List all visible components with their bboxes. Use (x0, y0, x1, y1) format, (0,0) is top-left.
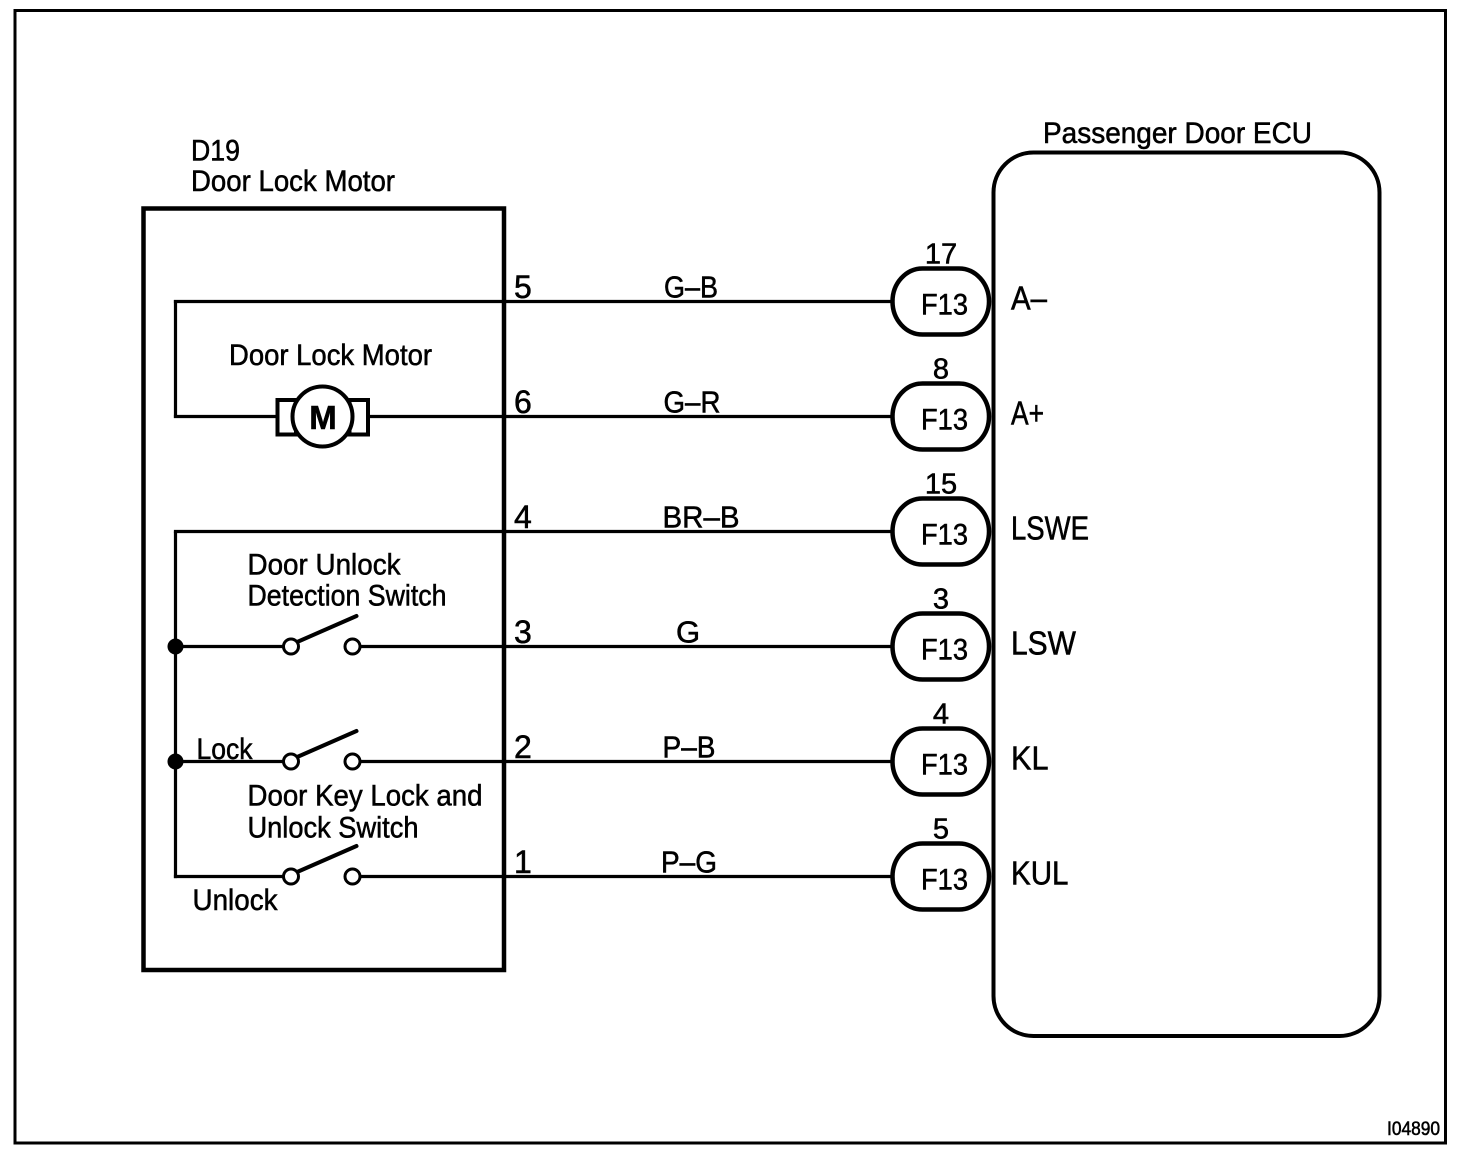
svg-text:Lock: Lock (197, 733, 254, 766)
svg-text:8: 8 (933, 354, 949, 386)
label Door Key Lock and Unlock Switch (248, 780, 483, 845)
connector F13 terminal 5 (893, 814, 990, 910)
svg-text:5: 5 (514, 269, 532, 305)
switch S2 Lock contact (284, 731, 361, 769)
switch S3 Unlock contact (284, 846, 361, 884)
svg-text:F13: F13 (921, 749, 968, 782)
svg-text:LSWE: LSWE (1011, 510, 1089, 547)
svg-text:A–: A– (1011, 280, 1048, 317)
svg-text:I04890: I04890 (1387, 1119, 1440, 1140)
svg-text:G–R: G–R (664, 385, 721, 420)
junction node at detection switch (168, 639, 184, 655)
svg-text:Unlock Switch: Unlock Switch (248, 812, 419, 845)
switch S1 Door Unlock Detection Switch (284, 616, 361, 654)
svg-text:D19: D19 (191, 135, 240, 168)
svg-text:P–G: P–G (661, 845, 717, 880)
wire pin2 P-B (174, 760, 893, 763)
svg-text:A+: A+ (1011, 395, 1044, 432)
wire pin6 G-R (174, 415, 893, 418)
connector F13 terminal 15 (893, 469, 990, 565)
svg-text:P–B: P–B (663, 730, 716, 765)
label Door Unlock Detection Switch (248, 549, 447, 613)
svg-text:Unlock: Unlock (193, 884, 279, 917)
svg-text:15: 15 (925, 469, 957, 501)
svg-text:6: 6 (514, 384, 532, 420)
svg-text:KL: KL (1011, 740, 1049, 777)
svg-text:4: 4 (933, 699, 949, 731)
svg-text:1: 1 (514, 844, 532, 880)
svg-text:F13: F13 (921, 404, 968, 437)
svg-text:17: 17 (925, 239, 957, 271)
door lock motor sub-box left edge (174, 300, 177, 418)
connector F13 terminal 8 (893, 354, 990, 450)
svg-text:BR–B: BR–B (663, 500, 740, 535)
svg-text:G–B: G–B (664, 270, 718, 305)
wire pin1 P-G (174, 875, 893, 878)
ECU U1 Passenger Door ECU (994, 153, 1380, 1037)
svg-text:Detection Switch: Detection Switch (248, 580, 447, 613)
wire pin5 G-B (174, 300, 893, 303)
svg-text:LSW: LSW (1011, 625, 1077, 662)
svg-text:G: G (676, 615, 700, 650)
svg-text:Door Key Lock and: Door Key Lock and (248, 780, 483, 813)
svg-text:M: M (309, 399, 337, 436)
svg-text:5: 5 (933, 814, 949, 846)
svg-text:3: 3 (933, 584, 949, 616)
connector F13 terminal 4 (893, 699, 990, 795)
junction node at lock switch (168, 754, 184, 770)
connector F13 terminal 17 (893, 239, 990, 335)
svg-text:Door Unlock: Door Unlock (248, 549, 402, 582)
svg-text:KUL: KUL (1011, 855, 1069, 892)
svg-text:Door Lock Motor: Door Lock Motor (229, 339, 432, 372)
wire pin3 G (174, 645, 893, 648)
svg-text:F13: F13 (921, 634, 968, 667)
svg-text:F13: F13 (921, 519, 968, 552)
motor M1 Door Lock Motor (278, 387, 369, 447)
connector D19 Door Lock Motor box (144, 209, 505, 971)
svg-text:F13: F13 (921, 289, 968, 322)
svg-text:4: 4 (514, 499, 532, 535)
svg-text:Passenger Door ECU: Passenger Door ECU (1043, 117, 1312, 150)
svg-text:Door Lock Motor: Door Lock Motor (191, 165, 395, 198)
connector F13 terminal 3 (893, 584, 990, 680)
wire pin4 BR-B (174, 530, 893, 533)
svg-text:2: 2 (514, 729, 532, 765)
wire switch common bus (174, 532, 177, 879)
svg-text:3: 3 (514, 614, 532, 650)
svg-text:F13: F13 (921, 864, 968, 897)
